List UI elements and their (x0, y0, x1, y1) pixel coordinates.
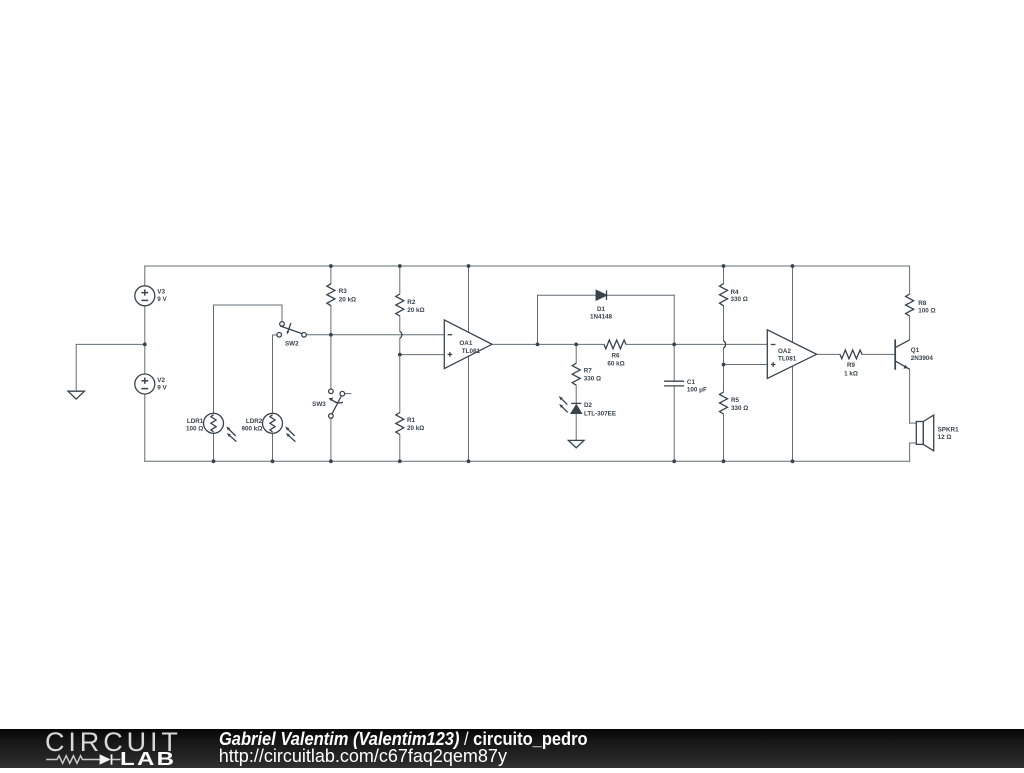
svg-text:D2: D2 (584, 402, 593, 409)
svg-text:R4: R4 (731, 289, 740, 296)
svg-text:LTL-307EE: LTL-307EE (584, 411, 616, 418)
svg-text:SW3: SW3 (312, 401, 326, 408)
svg-text:R8: R8 (918, 300, 927, 307)
svg-text:TL081: TL081 (778, 356, 797, 363)
svg-text:Q1: Q1 (911, 347, 920, 354)
svg-text:R1: R1 (407, 417, 416, 424)
svg-text:100 Ω: 100 Ω (186, 426, 203, 433)
svg-text:V3: V3 (157, 289, 165, 296)
svg-text:R7: R7 (584, 368, 593, 375)
svg-text:900 kΩ: 900 kΩ (241, 426, 262, 433)
svg-text:D1: D1 (597, 306, 606, 313)
svg-text:R5: R5 (731, 397, 740, 404)
svg-text:100 μF: 100 μF (687, 386, 707, 393)
svg-text:20 kΩ: 20 kΩ (407, 307, 424, 314)
svg-text:R6: R6 (611, 353, 620, 360)
svg-text:R3: R3 (339, 288, 348, 295)
svg-text:OA2: OA2 (778, 348, 791, 355)
svg-text:60 kΩ: 60 kΩ (607, 360, 624, 367)
svg-text:C1: C1 (687, 379, 696, 386)
svg-text:R2: R2 (407, 299, 416, 306)
svg-text:OA1: OA1 (459, 340, 472, 347)
svg-text:SW2: SW2 (285, 341, 299, 348)
svg-text:1 kΩ: 1 kΩ (844, 370, 858, 377)
svg-text:12 Ω: 12 Ω (938, 434, 952, 441)
svg-text:330 Ω: 330 Ω (731, 296, 748, 303)
svg-text:LDR2: LDR2 (246, 418, 263, 425)
svg-text:1N4148: 1N4148 (590, 313, 613, 320)
svg-text:9 V: 9 V (157, 296, 167, 303)
svg-text:2N3904: 2N3904 (911, 355, 934, 362)
svg-text:20 kΩ: 20 kΩ (339, 297, 356, 304)
svg-text:LDR1: LDR1 (187, 418, 204, 425)
svg-text:20 kΩ: 20 kΩ (407, 425, 424, 432)
svg-text:TL081: TL081 (462, 348, 481, 355)
svg-text:SPKR1: SPKR1 (938, 426, 959, 433)
svg-text:330 Ω: 330 Ω (584, 376, 601, 383)
svg-text:100 Ω: 100 Ω (918, 308, 935, 315)
svg-text:R9: R9 (847, 362, 856, 369)
svg-text:V2: V2 (157, 377, 165, 384)
svg-text:9 V: 9 V (157, 384, 167, 391)
svg-text:330 Ω: 330 Ω (731, 405, 748, 412)
